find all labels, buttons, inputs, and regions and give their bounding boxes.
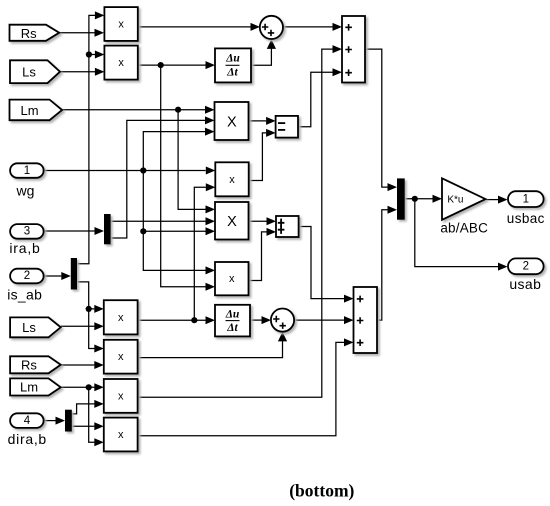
tag Rs (bottom) [10,356,61,373]
svg-text:Ls: Ls [22,320,36,335]
product P2 [104,46,137,80]
svg-text:wg: wg [16,183,35,199]
wire Sum1 out down to Mux3 in1 [365,49,397,191]
node label is_ab [7,287,42,303]
svg-text:(bottom): (bottom) [289,481,354,501]
wire P3 out to SumNeg in1 [249,117,276,125]
wire D2 out to sum circle S2 [250,316,271,324]
svg-text:usbac: usbac [507,211,545,226]
svg-text:Δt: Δt [226,67,238,79]
wire Rs2 to P8 in2 [61,361,104,369]
wire Ls to P2 in2 [60,68,104,76]
svg-text:2: 2 [24,270,30,282]
svg-text:x: x [229,273,235,285]
sum block Sum1 three plus [342,16,365,83]
node junction on wg line [140,167,146,173]
node junction on Lm2 line [86,384,92,390]
tag Ls (bottom) [10,317,61,337]
svg-text:x: x [229,174,235,186]
node junction wg branch to P5 in3 [140,228,146,234]
svg-text:Rs: Rs [21,358,37,373]
product P1 [104,7,137,41]
node label usbac [507,211,545,226]
svg-text:X: X [227,115,237,131]
wire P6 out up to SumPos in2 [249,228,277,281]
svg-text:x: x [118,18,124,30]
mux Mux3 [397,178,405,219]
product P3 three-input [215,102,249,140]
node junction on Lm line [175,107,181,113]
demux M4 for dira,b [65,410,72,432]
wire P7 out up to P4 in2 [194,183,215,320]
sum block minus-minus [276,116,298,138]
svg-text:Ls: Ls [22,65,36,80]
tag Lm (bottom) [10,378,61,395]
svg-text:x: x [118,429,124,441]
outport 2 [508,258,544,274]
svg-text:x: x [118,390,124,402]
svg-text:Lm: Lm [20,103,38,118]
svg-text:ira,b: ira,b [9,240,40,256]
wire P2 out to derivative D1 [138,61,215,69]
wire P7 out to derivative D2 [138,316,215,324]
svg-text:is_ab: is_ab [7,287,42,303]
wire Mux3 out down to outport 2 [415,199,508,271]
wire gain out to outport 1 [486,196,508,204]
wire wg down to P6 in1 [143,171,215,275]
demux M2 for is_ab [71,258,77,290]
wire inport 3 to Demux1 [44,227,104,235]
caption (bottom) [289,481,354,501]
wire Lm down to P5 in1 [178,110,215,214]
wire Sum3 out up to Mux3 in2 [377,206,397,320]
wire Lm2 down to P10 in2 [89,387,104,446]
product P6 [215,262,249,295]
svg-text:Δt: Δt [226,322,238,334]
wire irb from Demux1 out2 up to P3 in2 [111,116,215,238]
wire ira from Demux1 out1 to P5 in2 [111,217,215,225]
svg-text:x: x [118,57,124,69]
wire P5 out to SumPos in1 [249,217,277,225]
tag Ls (top) [10,60,60,83]
wire Lm to P3 in1 [62,106,214,114]
node junction is_b at P7 in1 [86,306,92,312]
svg-text:dira,b: dira,b [8,431,47,447]
wire wg branch to P5 in3 [143,227,215,235]
wire inport 4 to Demux4 [43,417,65,425]
derivative Du/Dt (top) [215,48,251,82]
svg-text:x: x [118,312,124,324]
svg-text:ab/ABC: ab/ABC [440,221,488,236]
derivative Du/Dt (bottom) [215,305,250,337]
sum block Sum3 three plus [354,287,378,353]
svg-text:Lm: Lm [20,380,38,395]
svg-text:x: x [118,351,124,363]
sum circle S1 [260,16,283,39]
node label dira,b [8,431,47,447]
node label wg [16,183,35,199]
svg-text:Δu: Δu [225,308,240,320]
wire is_b bus from Demux2 down to P7 in1 and P8 in1 [77,282,104,353]
svg-text:K*u: K*u [447,194,463,205]
wire P1 out to sum circle S1 [138,23,260,31]
product P4 [215,162,248,196]
inport 2 [10,269,44,284]
product P7 [104,300,138,334]
node junction is_a at P2 in1 [86,51,92,57]
product P10 [104,418,138,452]
node junction on P7 out [191,317,197,323]
wire inport 2 to Demux2 [44,272,71,280]
sum circle S2 [271,309,294,332]
wire P2 out down to P6 in2 [161,65,215,291]
wire Ls2 to P7 in2 [61,322,104,330]
svg-text:X: X [227,214,237,230]
demux M1 for ira,b [104,214,111,244]
label ab/ABC under gain [440,221,488,236]
svg-text:usab: usab [509,276,541,292]
wire P8 out up into S2 bottom [138,332,288,358]
wire SumNeg out up to Sum1 in3 [298,68,342,126]
wire Demux4 out2 to P10 in1 [72,422,104,430]
node label usab [509,276,541,292]
product P9 [104,379,138,413]
wire is_a bus from Demux2 up to P1 in1 and P2 in1 [77,11,104,263]
node label ira,b [9,240,40,256]
product P8 [104,340,138,374]
wire S2 out to Sum3 in2 [294,316,354,324]
wire wg to P4 in1 [44,167,216,175]
wire P9 out up to Sum1 in2 [138,45,342,397]
inport 3 [10,224,44,239]
wire P4 out up to SumNeg in2 [249,129,276,181]
tag Rs (top) [10,25,60,41]
outport 1 [508,191,544,207]
wire wg up to P3 in3 [143,128,214,171]
wire Lm2 to P9 in1 [61,383,104,391]
node junction on P2 out [158,62,164,68]
svg-text:2: 2 [523,261,529,273]
gain ab/ABC [442,178,486,220]
wire D1 out up into S1 bottom [251,39,276,65]
svg-text:4: 4 [24,415,31,427]
svg-text:Rs: Rs [21,26,37,41]
inport 1 [10,163,44,178]
wire Mux3 out to gain [405,195,442,203]
svg-text:Δu: Δu [225,53,240,65]
svg-text:3: 3 [24,226,30,238]
svg-text:1: 1 [523,194,529,206]
wire SumPos out down to Sum3 in1 [299,227,354,303]
wire Demux4 out1 to P9 in2 [72,400,104,414]
node junction on Mux3 out [412,196,418,202]
wire Rs to P1 in2 [59,29,104,37]
tag Lm (top) [10,100,63,121]
wire P10 out up to Sum3 in3 [138,338,354,435]
product P5 three-input [215,202,249,240]
svg-text:1: 1 [24,165,30,177]
wire S1 out to Sum1 in1 [283,23,342,31]
sum block plus-plus [276,216,299,237]
inport 4 [10,413,44,428]
